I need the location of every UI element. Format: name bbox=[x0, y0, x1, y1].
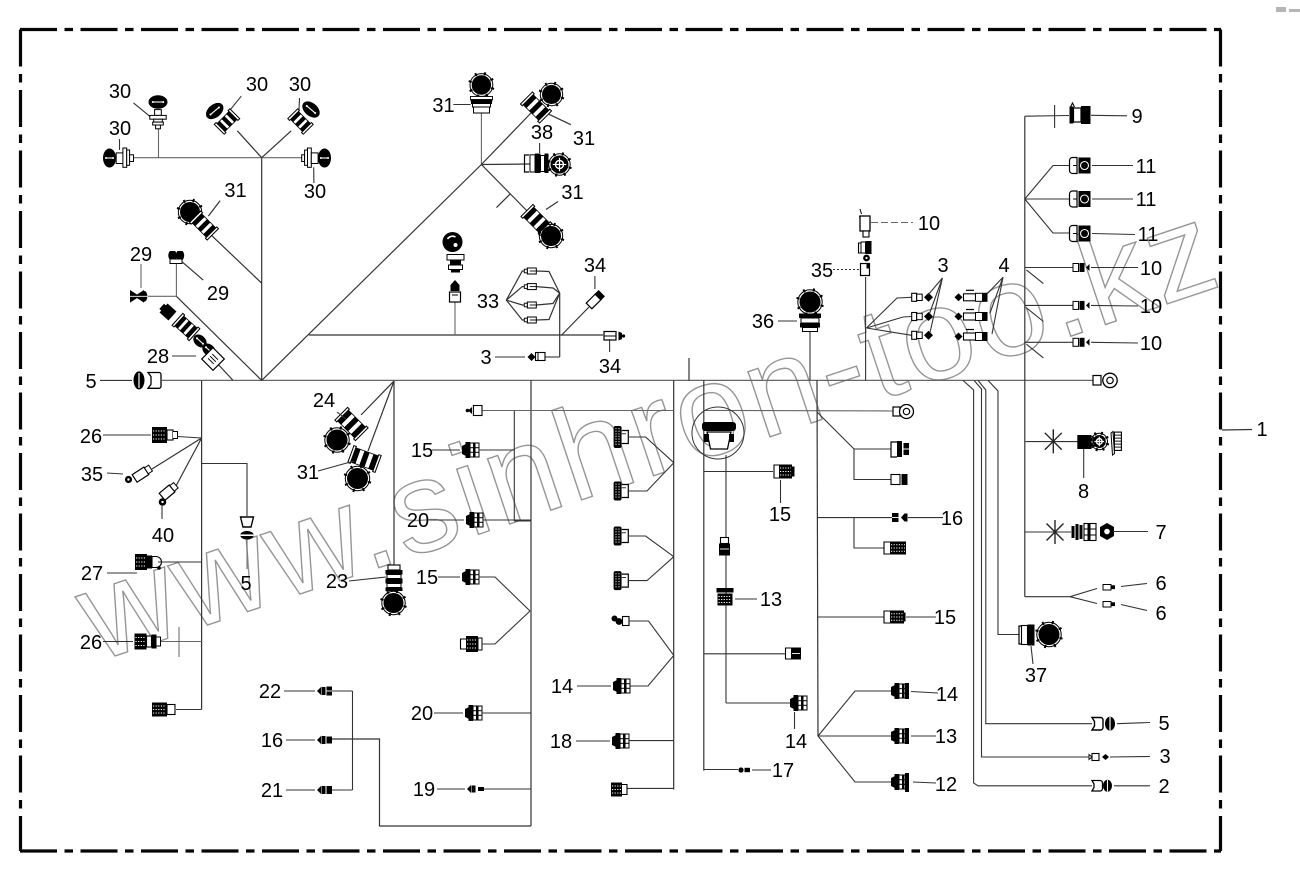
svg-text:28: 28 bbox=[147, 346, 169, 368]
connector 30 left socket bbox=[103, 149, 116, 168]
connector 30 oval lamp bbox=[149, 95, 168, 109]
connector 4x bbox=[955, 313, 963, 321]
connector 2 bbox=[1092, 781, 1103, 792]
connector 10c bbox=[859, 209, 862, 217]
connector 20 bbox=[466, 512, 483, 528]
terminal bbox=[524, 268, 536, 274]
wire 8 row bbox=[1026, 441, 1078, 443]
connector 27b bbox=[152, 703, 167, 717]
wire harness diagonal bbox=[262, 165, 482, 381]
connector 15m bbox=[774, 465, 779, 478]
svg-text:18: 18 bbox=[550, 731, 572, 753]
connector 15r2 bbox=[884, 611, 890, 623]
connector 14r bbox=[891, 683, 908, 699]
svg-text:1: 1 bbox=[1256, 419, 1267, 441]
wire bbox=[152, 438, 202, 469]
connector bbox=[884, 542, 890, 554]
connector 40 bbox=[159, 482, 179, 500]
wire bbox=[352, 691, 354, 790]
wire bbox=[158, 561, 202, 563]
connector 13r bbox=[891, 728, 908, 744]
wire center-left column bbox=[530, 380, 532, 826]
wire lamp group horizontal bbox=[134, 157, 303, 159]
svg-text:16: 16 bbox=[261, 730, 283, 752]
connector 3 bbox=[528, 353, 536, 361]
connector 15b bbox=[462, 569, 479, 585]
svg-text:11: 11 bbox=[1136, 156, 1157, 178]
connector 18 bbox=[612, 733, 629, 749]
connector 17 bbox=[738, 767, 743, 772]
svg-text:26: 26 bbox=[80, 632, 102, 654]
connector x790 bbox=[611, 783, 622, 797]
svg-text:30: 30 bbox=[304, 181, 326, 203]
wire bbox=[262, 131, 292, 158]
wire 3 drop bbox=[974, 380, 1092, 757]
connector 19 bbox=[467, 785, 471, 793]
wire 17 bbox=[704, 769, 738, 771]
node hub junction bbox=[261, 158, 263, 381]
connector 24b bbox=[348, 446, 381, 473]
connector 10x bbox=[1073, 338, 1079, 346]
svg-text:35: 35 bbox=[811, 260, 833, 282]
svg-text:31: 31 bbox=[224, 180, 246, 202]
terminal bbox=[524, 302, 536, 308]
wire bbox=[628, 437, 674, 463]
fan 14/13/12 bbox=[818, 691, 891, 736]
connector x644 bbox=[461, 639, 467, 649]
connector 5b funnel bbox=[241, 517, 254, 527]
tick bbox=[178, 627, 180, 657]
wire bbox=[673, 380, 675, 789]
connector 29 top bbox=[168, 250, 184, 264]
connector 26 top bbox=[152, 427, 167, 443]
svg-text:13: 13 bbox=[760, 589, 782, 611]
connector 12r bbox=[891, 774, 908, 790]
wire bbox=[629, 655, 674, 686]
connector 31 upper right bbox=[520, 92, 551, 123]
wire bbox=[332, 690, 353, 692]
wire bbox=[482, 712, 531, 714]
wire bbox=[545, 356, 560, 358]
connector 3x bbox=[912, 331, 917, 339]
wire bbox=[484, 788, 531, 790]
wire bbox=[704, 653, 785, 655]
wire 10 rows bbox=[1025, 267, 1078, 269]
wire bbox=[817, 380, 818, 736]
headlamp 13 bbox=[692, 407, 744, 459]
connector lamp c3 bbox=[614, 527, 629, 546]
svg-text:30: 30 bbox=[109, 118, 131, 140]
wire 16 row bbox=[817, 517, 892, 519]
tick bbox=[1054, 105, 1056, 128]
svg-text:10: 10 bbox=[918, 213, 940, 235]
connector 9 bbox=[1071, 103, 1075, 107]
wire bbox=[158, 129, 160, 158]
svg-text:30: 30 bbox=[289, 74, 311, 96]
wire bbox=[629, 621, 674, 655]
connector 5c bbox=[1092, 718, 1103, 731]
svg-text:21: 21 bbox=[261, 780, 283, 802]
connector 3x bbox=[912, 293, 917, 301]
terminal bbox=[524, 284, 536, 290]
sender unit 28 chain bbox=[158, 302, 177, 321]
wire bbox=[479, 449, 514, 451]
wire bbox=[216, 362, 233, 380]
wire bbox=[368, 381, 394, 451]
svg-text:27: 27 bbox=[81, 563, 103, 585]
svg-text:31: 31 bbox=[561, 182, 583, 204]
svg-text:10: 10 bbox=[1140, 296, 1162, 318]
svg-text:8: 8 bbox=[1078, 481, 1089, 503]
wire 7 row bbox=[1025, 531, 1071, 533]
connector 31 left bbox=[177, 199, 203, 225]
wire bbox=[628, 557, 674, 581]
wire bbox=[629, 740, 674, 742]
svg-text:3: 3 bbox=[480, 347, 491, 369]
svg-text:5: 5 bbox=[240, 573, 251, 595]
svg-text:11: 11 bbox=[1138, 224, 1159, 246]
connector 36 bbox=[797, 289, 824, 316]
svg-text:38: 38 bbox=[531, 122, 553, 144]
connector 30 diag right bbox=[299, 98, 323, 121]
connector 34 angled bbox=[586, 290, 605, 309]
connector lamp c1 bbox=[614, 426, 629, 448]
svg-text:2: 2 bbox=[1158, 776, 1169, 798]
svg-text:23: 23 bbox=[326, 571, 348, 593]
wire bbox=[178, 437, 202, 439]
connector 14 left bbox=[613, 678, 630, 694]
wire left column bbox=[201, 380, 203, 709]
connector 15 bbox=[462, 442, 479, 458]
svg-text:14: 14 bbox=[936, 684, 958, 706]
svg-text:6: 6 bbox=[1155, 603, 1166, 625]
svg-text:3: 3 bbox=[1159, 746, 1170, 768]
wire bbox=[332, 789, 353, 791]
svg-text:6: 6 bbox=[1155, 573, 1166, 595]
connector 23 bbox=[386, 565, 403, 591]
connector 30 right socket bbox=[302, 155, 305, 162]
svg-text:13: 13 bbox=[935, 726, 957, 748]
connector c5 bbox=[612, 616, 630, 626]
wire 5 drop bbox=[978, 380, 1092, 723]
wire 34 diag bbox=[561, 307, 589, 336]
svg-text:33: 33 bbox=[477, 291, 499, 313]
wire bbox=[481, 113, 531, 165]
wire 14 mid bbox=[726, 702, 790, 704]
wire bbox=[176, 438, 202, 486]
wire 11 fan bbox=[1025, 166, 1071, 200]
tick bbox=[688, 358, 690, 380]
wire bbox=[481, 163, 530, 166]
svg-text:16: 16 bbox=[941, 508, 963, 530]
svg-text:14: 14 bbox=[551, 676, 573, 698]
svg-text:19: 19 bbox=[413, 779, 435, 801]
wire 6 fork bbox=[1025, 589, 1097, 597]
svg-text:15: 15 bbox=[411, 440, 433, 462]
connector 13 bbox=[717, 588, 734, 593]
wire 2 drop bbox=[963, 380, 1092, 785]
tick bbox=[497, 194, 511, 208]
wire bbox=[237, 131, 261, 158]
wire bbox=[482, 611, 530, 644]
wire bbox=[865, 277, 867, 380]
connector 38 bbox=[525, 154, 549, 174]
svg-text:15: 15 bbox=[769, 504, 791, 526]
wire bbox=[161, 641, 202, 643]
wire bbox=[176, 709, 202, 711]
wire bbox=[393, 381, 395, 566]
star bbox=[1047, 520, 1064, 544]
connector 16 bbox=[317, 736, 322, 745]
wire bottom loop bbox=[329, 739, 531, 826]
svg-text:26: 26 bbox=[80, 426, 102, 448]
connector 4x bbox=[955, 333, 963, 341]
connector 15r1 bbox=[891, 442, 897, 457]
connector lamp c2 bbox=[614, 482, 629, 501]
watermark bbox=[59, 172, 1237, 689]
svg-text:9: 9 bbox=[1131, 106, 1142, 128]
svg-text:15: 15 bbox=[416, 567, 438, 589]
wire bbox=[481, 165, 533, 218]
connector 6b bbox=[1103, 602, 1111, 608]
connector 31 lower right bbox=[521, 204, 552, 235]
star bbox=[1045, 429, 1062, 453]
connector 10x bbox=[1073, 301, 1079, 309]
connector 11 bbox=[1070, 158, 1078, 174]
wire bbox=[514, 520, 531, 522]
connector 3b bbox=[1092, 754, 1099, 761]
connector 30 diag left bbox=[203, 100, 227, 123]
svg-text:29: 29 bbox=[130, 244, 152, 266]
wire bbox=[809, 332, 811, 380]
connector 5 bbox=[134, 371, 162, 389]
wire ring row left bbox=[482, 410, 674, 412]
wire bbox=[483, 519, 531, 521]
wire bbox=[513, 411, 515, 522]
wire bbox=[480, 113, 482, 165]
connector 4x bbox=[955, 293, 963, 301]
connector 21 bbox=[317, 786, 322, 795]
connector 26 bottom bbox=[135, 634, 147, 650]
svg-text:31: 31 bbox=[297, 462, 319, 484]
wire bbox=[854, 518, 884, 548]
wire 37 drop bbox=[988, 380, 1019, 634]
wire 3 fan bbox=[867, 297, 912, 328]
svg-text:10: 10 bbox=[1140, 258, 1162, 280]
ring terminal bbox=[893, 407, 900, 416]
harness 33 fan bbox=[506, 271, 527, 300]
svg-text:12: 12 bbox=[935, 774, 957, 796]
svg-text:24: 24 bbox=[313, 390, 335, 412]
wire ring row right bbox=[704, 409, 893, 412]
connector small bbox=[891, 475, 900, 485]
wire bbox=[817, 412, 891, 449]
wire bbox=[454, 302, 456, 335]
svg-text:7: 7 bbox=[1155, 522, 1166, 544]
wire bbox=[628, 463, 674, 491]
svg-text:31: 31 bbox=[573, 128, 595, 150]
watermark corner mark bbox=[1276, 7, 1300, 12]
wire bbox=[854, 449, 891, 480]
connector x652 bbox=[786, 648, 792, 659]
svg-text:5: 5 bbox=[1158, 713, 1169, 735]
svg-text:14: 14 bbox=[785, 731, 807, 753]
connector 8 bbox=[1077, 435, 1091, 449]
wire funnel branch bbox=[202, 464, 247, 517]
svg-text:20: 20 bbox=[411, 703, 433, 725]
svg-text:5: 5 bbox=[85, 371, 96, 393]
connector 11 bbox=[1070, 226, 1078, 242]
wire 15 row bbox=[817, 616, 884, 618]
svg-text:17: 17 bbox=[772, 760, 794, 782]
wire bbox=[211, 235, 261, 283]
connector 7 bbox=[1072, 526, 1075, 538]
connector 16r bbox=[892, 513, 899, 522]
svg-text:10: 10 bbox=[1140, 333, 1162, 355]
connector 20b bbox=[465, 705, 482, 721]
svg-text:35: 35 bbox=[81, 464, 103, 486]
svg-text:40: 40 bbox=[152, 525, 174, 547]
wire 29 group bbox=[176, 296, 261, 380]
wire mid harness branch bbox=[309, 334, 603, 336]
wire bbox=[725, 455, 727, 703]
svg-text:29: 29 bbox=[207, 283, 229, 305]
wire bbox=[703, 380, 705, 770]
svg-text:34: 34 bbox=[599, 356, 621, 378]
connector 35c stack bbox=[859, 243, 862, 253]
svg-text:34: 34 bbox=[584, 255, 606, 277]
connector 11 bbox=[1070, 191, 1078, 207]
svg-text:11: 11 bbox=[1136, 189, 1157, 211]
connector 35 bbox=[132, 464, 153, 482]
svg-text:3: 3 bbox=[937, 255, 948, 277]
wire bbox=[559, 293, 561, 357]
svg-text:36: 36 bbox=[752, 311, 774, 333]
ring terminal right bbox=[1093, 376, 1101, 386]
wire bbox=[627, 787, 674, 789]
connector ring-left bbox=[468, 407, 472, 414]
connector 10x bbox=[1073, 264, 1079, 272]
connector chain 36a bbox=[443, 232, 463, 252]
svg-text:37: 37 bbox=[1025, 665, 1047, 687]
connector 22 bbox=[317, 687, 322, 696]
connector 14 mid bbox=[790, 695, 807, 711]
connector 24a bbox=[335, 407, 368, 440]
wire bbox=[628, 536, 674, 557]
connector 31 top stack bbox=[469, 72, 494, 97]
connector 3x bbox=[912, 313, 917, 321]
svg-text:4: 4 bbox=[998, 255, 1009, 277]
wire 9 row bbox=[1025, 115, 1069, 118]
wire 15 row mid bbox=[704, 471, 773, 473]
svg-text:30: 30 bbox=[246, 74, 268, 96]
connector lamp c4 bbox=[614, 571, 629, 590]
terminal bbox=[524, 317, 536, 323]
connector 34b bbox=[604, 332, 616, 341]
svg-text:22: 22 bbox=[259, 681, 281, 703]
svg-text:15: 15 bbox=[934, 607, 956, 629]
connector 13 small bbox=[721, 538, 729, 544]
wire right trunk bbox=[1024, 116, 1026, 597]
connector 6a bbox=[1103, 585, 1111, 591]
wire bbox=[246, 540, 248, 569]
wire main bus bbox=[162, 379, 1093, 381]
wire bbox=[361, 381, 394, 415]
wire bbox=[479, 577, 530, 611]
connector 27 bbox=[135, 554, 147, 570]
svg-text:20: 20 bbox=[407, 510, 429, 532]
connector 29 bowtie bbox=[130, 290, 148, 303]
connector 37 bbox=[1019, 626, 1022, 644]
svg-text:30: 30 bbox=[109, 81, 131, 103]
svg-text:31: 31 bbox=[432, 95, 454, 117]
